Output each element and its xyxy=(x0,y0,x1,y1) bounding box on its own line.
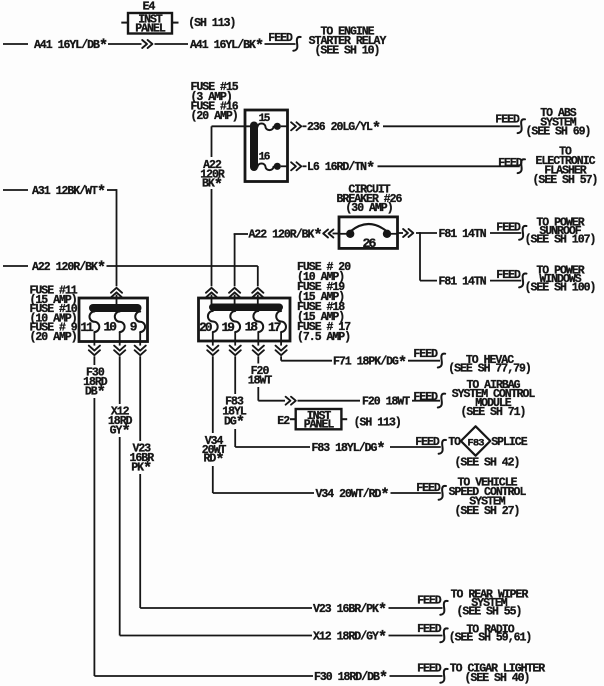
svg-text:FEED: FEED xyxy=(496,269,521,282)
svg-text:(SEE SH 77,79): (SEE SH 77,79) xyxy=(448,363,531,376)
svg-text:F83: F83 xyxy=(467,437,484,449)
wire A41 segment right xyxy=(155,43,189,45)
fuse 9 element xyxy=(130,312,145,335)
svg-text:(SEE SH 40): (SEE SH 40) xyxy=(465,672,530,685)
svg-text:TO: TO xyxy=(448,436,461,449)
wire A41 feed segment xyxy=(265,43,296,45)
feed brace flasher xyxy=(518,159,525,173)
wire F71 corner xyxy=(281,356,332,360)
label FEED engine xyxy=(268,32,293,45)
fuse 18 element xyxy=(245,311,264,334)
wire A41 segment xyxy=(108,43,142,45)
svg-text:(SEE SH 10): (SEE SH 10) xyxy=(315,45,380,58)
wire A31 to corner xyxy=(107,189,117,191)
callout to power sunroof xyxy=(525,216,596,246)
svg-text:DG*: DG* xyxy=(224,414,244,432)
svg-text:15: 15 xyxy=(259,113,271,125)
wire V23 vertical xyxy=(139,356,141,441)
fuse 11 element xyxy=(80,312,99,335)
callout to ABS system xyxy=(526,107,591,139)
label wire F81 14TN windows xyxy=(439,276,487,289)
label wire A22 120R BK* xyxy=(200,159,225,194)
wire V23 horizontal xyxy=(140,607,312,609)
label FEED sunroof xyxy=(496,221,521,234)
wire into breaker box xyxy=(333,233,341,235)
svg-text:(SH 113): (SH 113) xyxy=(188,17,235,30)
svg-text:(SEE SH 71): (SEE SH 71) xyxy=(461,406,526,419)
label wire A22 120R/BK* breaker xyxy=(249,227,322,245)
stub into right block pin18 xyxy=(257,295,259,306)
label FEED windows xyxy=(496,269,521,282)
wire F81 branch horizontal xyxy=(420,280,437,282)
wire F30 vertical xyxy=(93,356,95,365)
connector E4 instrument panel box xyxy=(121,13,178,35)
callout to cigar lighter xyxy=(450,663,546,685)
svg-text:(SEE SH 42): (SEE SH 42) xyxy=(455,456,520,469)
svg-text:26: 26 xyxy=(362,236,376,251)
svg-text:FEED: FEED xyxy=(417,595,442,608)
wire V34 vertical lower xyxy=(212,466,214,493)
svg-text:FEED: FEED xyxy=(495,113,520,126)
svg-text:A22 120R/BK*: A22 120R/BK* xyxy=(32,259,105,277)
right fuse block outline xyxy=(199,298,291,341)
svg-text:(20 AMP): (20 AMP) xyxy=(30,331,77,344)
wire L6 feed segment xyxy=(378,165,520,167)
svg-text:(SEE SH 69): (SEE SH 69) xyxy=(526,126,591,139)
label FEED wiper xyxy=(417,595,442,608)
svg-text:(SEE SH 100): (SEE SH 100) xyxy=(525,282,596,295)
svg-text:F30 18RD/DB*: F30 18RD/DB* xyxy=(314,669,387,686)
svg-text:F81 14TN: F81 14TN xyxy=(439,228,487,241)
circuit breaker 26 element xyxy=(340,224,397,251)
label fuse 20/19/18/17 ratings xyxy=(297,261,351,344)
circuit breaker 26 box xyxy=(339,217,398,249)
callout to airbag control module xyxy=(452,379,536,419)
wire A31 vertical drop xyxy=(116,189,118,286)
label FEED hevac xyxy=(413,348,438,361)
wire F20 horizontal xyxy=(258,400,285,402)
connector inline after fuse15 xyxy=(291,122,301,130)
svg-text:F81 14TN: F81 14TN xyxy=(439,276,487,289)
wire A22 corner drop xyxy=(257,266,259,286)
fusebox F15/F16 bus bar xyxy=(250,122,258,172)
label (SH 113) bottom xyxy=(354,416,401,429)
svg-text:(SEE SH 107): (SEE SH 107) xyxy=(525,233,596,246)
feed brace windows xyxy=(519,274,526,288)
svg-text:SPLICE: SPLICE xyxy=(491,436,528,449)
wire F20 vertical xyxy=(257,356,259,363)
svg-text:10: 10 xyxy=(103,319,116,334)
label fuse 11/10/9 ratings xyxy=(30,285,78,345)
svg-text:F20 18WT: F20 18WT xyxy=(362,396,410,409)
wire A22 vertical upper segment xyxy=(211,126,213,157)
fuse F15 element xyxy=(258,113,281,130)
wire X12 vertical xyxy=(119,356,121,404)
pin 11 stub xyxy=(89,332,100,355)
label wire F71 18PK/DG* xyxy=(333,354,406,372)
label wire X12 18RD/GY* xyxy=(313,629,386,647)
wire F83 vertical lower xyxy=(234,429,236,447)
feed brace hevac xyxy=(438,354,445,368)
wire X12 horizontal xyxy=(120,635,312,637)
label wire A41 16YL/DB* xyxy=(34,37,107,55)
label FEED cigar xyxy=(417,663,442,676)
right fuse block bus bar xyxy=(209,304,283,312)
svg-text:(20 AMP): (20 AMP) xyxy=(191,110,238,123)
svg-text:PANEL: PANEL xyxy=(135,22,166,35)
wire V34 feed segment xyxy=(391,492,441,494)
fuse 19 element xyxy=(222,311,241,335)
connector E2 inline symbol xyxy=(286,397,296,405)
callout to vehicle speed control xyxy=(449,477,527,518)
wire V23 vertical long xyxy=(139,474,141,608)
wire V23 feed segment xyxy=(389,607,443,609)
feed brace wiper xyxy=(440,601,447,615)
wire V34 vertical xyxy=(212,356,214,433)
connector E4 label xyxy=(143,0,156,13)
fuse F16 element xyxy=(258,151,281,170)
svg-text:FEED: FEED xyxy=(416,482,441,495)
feed brace cigar xyxy=(440,669,447,683)
label FEED vehicle speed xyxy=(416,482,441,495)
svg-text:FEED: FEED xyxy=(268,32,293,45)
svg-text:A22 120R/BK*: A22 120R/BK* xyxy=(249,227,322,245)
wire F20 vertical lower xyxy=(257,387,259,401)
fuse 20 element xyxy=(199,311,218,335)
callout to electronic flasher xyxy=(533,146,598,188)
callout to HEVAC xyxy=(448,354,531,376)
svg-text:236 20LG/YL*: 236 20LG/YL* xyxy=(307,119,380,137)
label FEED airbag xyxy=(413,391,438,404)
label wire V34 20WT RD* pin xyxy=(202,435,227,469)
svg-text:9: 9 xyxy=(130,319,137,334)
pin 10 stub xyxy=(114,332,125,355)
svg-text:F71 18PK/DG*: F71 18PK/DG* xyxy=(333,354,406,372)
wire X12 vertical long xyxy=(119,437,121,636)
feed brace vehicle speed xyxy=(439,486,446,500)
label wire A22 120R/BK* bus xyxy=(32,259,105,277)
wire F81 feed segment windows xyxy=(490,280,521,282)
label FEED splice xyxy=(415,436,440,449)
svg-text:(SEE SH 55): (SEE SH 55) xyxy=(457,605,522,618)
connector above right block pin19 xyxy=(229,288,240,298)
callout to radio xyxy=(449,624,532,645)
pin 20 stub xyxy=(207,332,218,355)
connector above right block pin20 xyxy=(206,288,217,298)
wire 236 feed segment xyxy=(383,125,520,127)
label (SEE SH 42) xyxy=(455,456,520,469)
svg-text:A41 16YL/DB*: A41 16YL/DB* xyxy=(34,37,107,55)
callout to engine starter relay xyxy=(309,26,387,58)
wire A22 bus dash xyxy=(3,265,28,267)
wire fuse15 output stub xyxy=(281,125,288,127)
label circuit breaker 26 xyxy=(337,184,403,215)
wire A22 into fusebox xyxy=(212,125,252,127)
svg-text:FEED: FEED xyxy=(415,436,440,449)
pin 19 stub xyxy=(230,332,241,355)
label wire F83 18YL DG* pin xyxy=(222,396,247,432)
splice F83 diamond xyxy=(461,426,490,455)
wire A22 bus horizontal xyxy=(107,265,258,267)
label wire A31 12BK/WT* xyxy=(32,183,105,201)
svg-text:18: 18 xyxy=(245,319,258,334)
wire F20 segment xyxy=(298,400,361,402)
wire F30 vertical long xyxy=(93,398,95,676)
svg-text:18WT: 18WT xyxy=(248,375,273,388)
callout to power windows xyxy=(525,265,596,295)
label wire F30 18RD/DB* xyxy=(314,669,387,686)
wire F30 horizontal xyxy=(94,675,313,677)
label wire V23 16BR/PK* xyxy=(313,601,386,619)
svg-text:16: 16 xyxy=(259,151,270,163)
wire fuse16 output stub xyxy=(281,165,288,167)
svg-text:20: 20 xyxy=(199,320,212,335)
wire F83 vertical xyxy=(234,356,236,394)
wire F83 feed segment xyxy=(390,446,441,448)
connector E4 inline symbol xyxy=(142,40,152,48)
svg-text:X12 18RD/GY*: X12 18RD/GY* xyxy=(313,629,386,647)
svg-text:(SEE SH 57): (SEE SH 57) xyxy=(533,174,598,187)
svg-text:F83 18YL/DG*: F83 18YL/DG* xyxy=(312,440,385,458)
connector inline after fuse16 xyxy=(291,162,301,170)
connector female before breaker xyxy=(323,230,333,238)
wire F71 feed segment xyxy=(408,360,440,362)
wire 236 20LG/YL dash xyxy=(303,125,307,127)
fusebox F15/F16 outline xyxy=(245,110,288,182)
svg-text:A31 12BK/WT*: A31 12BK/WT* xyxy=(32,183,105,201)
pin 17 stub xyxy=(276,332,287,355)
svg-text:(SEE SH 27): (SEE SH 27) xyxy=(455,505,520,518)
pin 9 stub xyxy=(135,332,146,355)
svg-text:FEED: FEED xyxy=(413,391,438,404)
label wire F20 18WT xyxy=(362,396,410,409)
connector above right block pin18 xyxy=(252,288,263,298)
svg-text:FEED: FEED xyxy=(413,348,438,361)
label wire F83 18YL/DG* xyxy=(312,440,385,458)
svg-text:E2: E2 xyxy=(277,415,290,428)
wire A31 dash xyxy=(3,189,28,191)
feed brace sunroof xyxy=(519,226,526,240)
label FEED radio xyxy=(417,623,442,636)
wire L6 dash xyxy=(303,165,307,167)
svg-text:L6 16RD/TN*: L6 16RD/TN* xyxy=(307,159,374,177)
label wire F30 18RD DB* pin xyxy=(83,367,108,402)
fuse 10 element xyxy=(103,312,124,335)
callout to rear wiper xyxy=(451,588,529,618)
label SPLICE xyxy=(491,436,528,449)
wire F30 feed segment xyxy=(390,675,443,677)
svg-text:FEED: FEED xyxy=(417,623,442,636)
label wire V34 20WT/RD* xyxy=(316,486,389,504)
svg-text:FEED: FEED xyxy=(417,663,442,676)
wire out of breaker xyxy=(398,232,404,234)
wire F81 to branch xyxy=(416,232,437,234)
label (SH 113) top xyxy=(188,17,235,30)
label wire L6 16RD/TN* xyxy=(307,159,374,177)
connector E2 label xyxy=(277,415,290,428)
svg-text:V23 16BR/PK*: V23 16BR/PK* xyxy=(313,601,386,619)
wire A41 16YL/DB left dash xyxy=(3,43,28,45)
feed brace splice xyxy=(439,440,446,454)
stub into right block pin20 xyxy=(211,295,213,306)
svg-text:(7.5 AMP): (7.5 AMP) xyxy=(297,331,350,344)
wire A22 vertical lower segment xyxy=(211,189,213,286)
connector inline after breaker xyxy=(403,229,413,237)
label wire F20 18WT pin xyxy=(248,365,273,388)
svg-text:E4: E4 xyxy=(143,0,156,13)
wire X12 feed segment xyxy=(389,635,443,637)
svg-text:PANEL: PANEL xyxy=(304,419,335,432)
wire F20 feed segment xyxy=(412,400,440,402)
connector E2 instrument panel box xyxy=(290,409,347,432)
left fuse block outline xyxy=(79,298,148,342)
left fuse block bus bar xyxy=(89,304,142,312)
pin 18 stub xyxy=(253,332,264,355)
svg-text:(SH 113): (SH 113) xyxy=(354,416,401,429)
svg-text:17: 17 xyxy=(268,320,281,335)
fuse 17 element xyxy=(268,311,286,335)
feed brace radio xyxy=(440,628,447,642)
connector above left fuse block xyxy=(111,288,122,298)
svg-text:(30 AMP): (30 AMP) xyxy=(345,202,392,215)
feed brace abs xyxy=(518,119,525,133)
stub into right block pin19 xyxy=(234,295,236,306)
svg-text:19: 19 xyxy=(222,320,235,335)
svg-text:A41 16YL/BK*: A41 16YL/BK* xyxy=(190,37,263,55)
wire F81 feed segment sunroof xyxy=(490,232,521,234)
label wire F81 14TN sunroof xyxy=(439,228,487,241)
label fuse 15/16 ratings xyxy=(191,81,239,123)
feed brace engine xyxy=(293,37,300,51)
feed brace airbag xyxy=(438,394,445,408)
svg-text:(SEE SH 59,61): (SEE SH 59,61) xyxy=(449,632,532,645)
svg-text:FEED: FEED xyxy=(498,157,523,170)
wire F81 branch vertical xyxy=(419,232,421,281)
label FEED flasher xyxy=(498,157,523,170)
wire F83 horizontal xyxy=(235,446,310,448)
label FEED abs xyxy=(495,113,520,126)
svg-text:PK*: PK* xyxy=(131,460,151,478)
label wire 236 20LG/YL* xyxy=(307,119,380,137)
label wire V23 16BR PK* pin xyxy=(129,443,154,478)
label TO splice xyxy=(448,436,461,449)
label wire X12 18RD GY* pin xyxy=(108,406,133,441)
svg-text:FEED: FEED xyxy=(496,221,521,234)
svg-text:V34 20WT/RD*: V34 20WT/RD* xyxy=(316,486,389,504)
stub into left fuse block xyxy=(116,295,118,306)
wire V34 horizontal xyxy=(213,492,314,494)
label wire A41 16YL/BK* xyxy=(190,37,263,55)
wire breaker input corner xyxy=(234,234,248,286)
